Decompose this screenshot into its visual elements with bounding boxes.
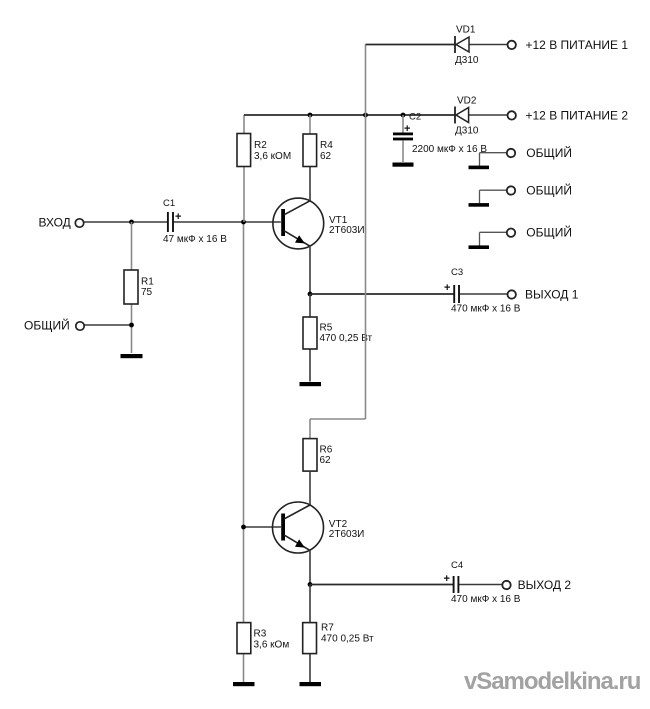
node input junction [129,220,134,225]
svg-text:R5: R5 [320,323,333,334]
node emitter VT1 junction [308,292,313,297]
node emitter VT2 junction [308,582,313,587]
transistor VT2 [273,502,365,553]
wire R5 stubs [309,294,311,382]
svg-text:R3: R3 [254,629,267,640]
svg-text:C3: C3 [451,267,463,278]
svg-text:+: + [444,573,450,585]
svg-text:R4: R4 [320,140,333,151]
ground R5 [300,382,322,386]
wire rail B from VD1 down [310,45,366,439]
capacitor C4 [444,560,521,605]
wire VD2 row [469,114,507,116]
svg-text:Д310: Д310 [455,55,479,66]
svg-text:2Т603И: 2Т603И [329,529,365,540]
svg-text:75: 75 [141,287,153,298]
wire output 1 row [310,293,508,295]
resistor R1 [124,270,154,304]
svg-text:ВЫХОД 2: ВЫХОД 2 [518,578,572,592]
wire ОБЩИЙ 3 [480,232,507,245]
ground ОБЩИЙ 2 [469,203,490,207]
svg-text:2200 мкФ х 16 В: 2200 мкФ х 16 В [412,144,487,155]
wire bias rail x=243 [243,222,245,682]
resistor R6 [303,439,333,472]
wire VT2 emitter down [309,550,311,584]
ground R1 [121,354,143,358]
wire supply bus y=115 [244,114,455,116]
svg-text:2Т603И: 2Т603И [329,225,365,236]
svg-text:C4: C4 [451,560,463,571]
svg-text:+12 В ПИТАНИЕ 1: +12 В ПИТАНИЕ 1 [526,38,629,52]
resistor R3 [237,623,289,654]
svg-text:62: 62 [320,455,332,466]
wire ОБЩИЙ left [85,324,132,326]
terminal ОБЩИЙ 3 [507,225,572,240]
node R4 top [308,113,313,118]
wire VD1 row [366,44,508,46]
svg-text:470 мкФ х 16 В: 470 мкФ х 16 В [451,304,521,315]
resistor R5 [303,317,373,349]
capacitor C2 [393,112,487,163]
node C2 top [401,113,406,118]
terminal ОБЩИЙ 1 [507,145,572,160]
terminal ВЫХОД 2 [502,578,571,592]
svg-text:+: + [444,282,450,294]
svg-text:R6: R6 [320,445,333,456]
node rail B bus [363,113,368,118]
svg-text:R2: R2 [254,140,267,151]
wire input row [84,221,281,223]
svg-text:ВХОД: ВХОД [39,216,71,230]
svg-text:3,6 кОМ: 3,6 кОМ [254,151,291,162]
svg-text:+: + [404,123,410,135]
terminal +12 В ПИТАНИЕ 2 [508,109,629,123]
terminal ОБЩИЙ 2 [507,183,572,198]
node VT2 base junction [241,525,246,530]
svg-text:470 мкФ х 16 В: 470 мкФ х 16 В [451,594,521,605]
svg-text:ОБЩИЙ: ОБЩИЙ [526,145,572,160]
wire VT2 base [244,526,281,528]
svg-text:ВЫХОД 1: ВЫХОД 1 [525,288,579,302]
capacitor C1 [163,198,227,245]
terminal +12 В ПИТАНИЕ 1 [508,38,629,52]
wire R7 stubs [309,585,311,683]
svg-text:VD1: VD1 [456,25,476,36]
svg-text:ОБЩИЙ: ОБЩИЙ [24,318,70,333]
node C1 / R2 / base junction [241,220,246,225]
svg-text:470 0,25 Вт: 470 0,25 Вт [321,634,374,645]
wire output 2 row [310,584,503,586]
svg-text:VD2: VD2 [457,96,477,107]
svg-text:ОБЩИЙ: ОБЩИЙ [526,183,572,198]
ground R3 [233,682,255,686]
svg-text:C2: C2 [409,112,421,123]
wire R1 vertical [131,222,133,353]
wire R2 stubs [243,115,245,222]
svg-text:+12 В ПИТАНИЕ 2: +12 В ПИТАНИЕ 2 [526,109,629,123]
wire ОБЩИЙ 2 [480,190,507,203]
resistor R2 [237,134,291,167]
svg-text:vSamodelkina.ru: vSamodelkina.ru [464,668,641,695]
svg-text:3,6 кОм: 3,6 кОм [254,640,290,651]
svg-text:47 мкФ х 16 В: 47 мкФ х 16 В [163,234,227,245]
svg-text:+: + [175,211,181,223]
node R1 ground junction [129,323,134,328]
wire ОБЩИЙ 1 [480,153,507,166]
terminal ОБЩИЙ left [24,318,84,333]
resistor R4 [303,134,333,167]
svg-text:ОБЩИЙ: ОБЩИЙ [526,225,572,240]
wire R4 stubs [309,115,311,201]
capacitor C3 [444,267,521,315]
svg-text:470 0,25 Вт: 470 0,25 Вт [320,333,373,344]
resistor R7 [303,623,374,654]
svg-text:Д310: Д310 [455,126,479,137]
terminal ВХОД [39,216,84,230]
transistor VT1 [273,198,365,249]
diode VD2 [455,96,479,137]
ground ОБЩИЙ 1 [469,166,490,170]
terminal ВЫХОД 1 [508,288,579,302]
ground C2 [393,163,414,167]
wire VT1 emitter down [309,246,311,294]
diode VD1 [455,25,479,67]
ground ОБЩИЙ 3 [469,245,490,249]
svg-text:R7: R7 [321,623,334,634]
ground R7 [300,682,322,686]
svg-text:R1: R1 [141,277,154,288]
svg-text:62: 62 [320,151,332,162]
svg-text:C1: C1 [163,198,175,209]
wire R6 to VT2 collector [309,471,311,505]
